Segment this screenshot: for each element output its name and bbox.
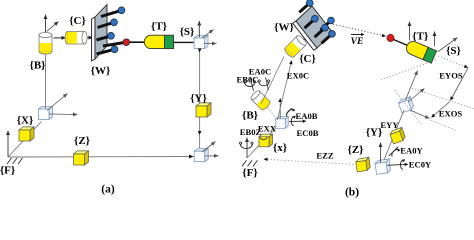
- svg-text:{W}: {W}: [91, 65, 111, 77]
- svg-text:{F}: {F}: [0, 165, 15, 177]
- svg-text:{C}: {C}: [69, 15, 86, 27]
- svg-text:{T}: {T}: [412, 31, 428, 43]
- svg-text:VE: VE: [351, 37, 364, 47]
- svg-text:{x}: {x}: [273, 142, 287, 154]
- svg-text:{Y}: {Y}: [190, 93, 207, 105]
- svg-text:{S}: {S}: [180, 26, 195, 38]
- svg-text:{B}: {B}: [242, 110, 258, 122]
- svg-text:EX0C: EX0C: [287, 71, 309, 81]
- svg-text:{X}: {X}: [17, 115, 34, 127]
- svg-text:{W}: {W}: [274, 22, 294, 34]
- svg-text:{Z}: {Z}: [347, 144, 363, 156]
- svg-text:{B}: {B}: [29, 60, 45, 72]
- svg-text:(b): (b): [345, 186, 359, 198]
- svg-text:(a): (a): [101, 184, 115, 196]
- svg-text:EB0C: EB0C: [237, 75, 259, 85]
- svg-text:EXOS: EXOS: [439, 108, 463, 118]
- svg-text:EC0Y: EC0Y: [409, 159, 432, 169]
- svg-text:EB0Z: EB0Z: [240, 127, 262, 137]
- svg-text:{Z}: {Z}: [74, 135, 90, 147]
- svg-text:{T}: {T}: [151, 21, 167, 33]
- svg-text:EYY: EYY: [380, 120, 399, 130]
- svg-text:EC0B: EC0B: [297, 128, 319, 138]
- svg-text:{C}: {C}: [299, 53, 316, 65]
- svg-text:EA0Y: EA0Y: [400, 146, 423, 156]
- svg-text:EYOS: EYOS: [439, 71, 463, 81]
- svg-text:EA0B: EA0B: [296, 111, 318, 121]
- svg-text:{S}: {S}: [446, 45, 461, 57]
- svg-text:{F}: {F}: [242, 167, 257, 179]
- svg-text:EZZ: EZZ: [316, 151, 333, 161]
